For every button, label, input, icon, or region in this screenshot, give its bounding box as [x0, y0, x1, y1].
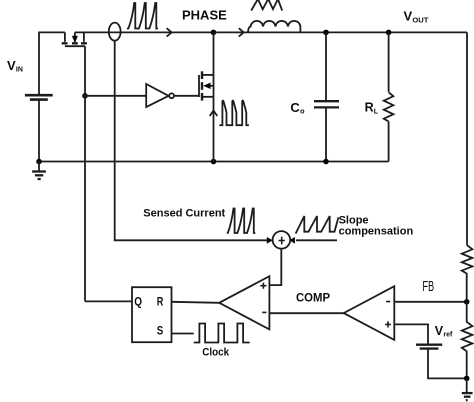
- svg-text:R: R: [365, 101, 374, 115]
- label Clock: [202, 346, 230, 358]
- inductor L1: [248, 21, 300, 33]
- svg-text:V: V: [435, 324, 444, 338]
- op-amp U4 error amplifier: [344, 286, 395, 340]
- arrow into summer from left: [267, 237, 272, 243]
- svg-text:PHASE: PHASE: [182, 8, 227, 23]
- label PHASE: [182, 8, 227, 23]
- arrow on phase wire: [167, 28, 172, 36]
- summing junction S1: [273, 231, 291, 249]
- resistor RL: [384, 32, 394, 161]
- svg-text:compensation: compensation: [339, 226, 414, 238]
- label Co: [290, 100, 305, 116]
- battery VIN: [25, 32, 65, 161]
- wire output rail: [214, 31, 468, 33]
- label VIN: [7, 58, 23, 74]
- arrow into summer from right: [290, 237, 295, 243]
- wire latch S input: [172, 333, 194, 335]
- label Sensed Current: [143, 208, 225, 220]
- svg-text:FB: FB: [422, 278, 434, 295]
- node FB: [464, 299, 470, 305]
- current sensor CT: [109, 23, 121, 41]
- ground symbol right: [462, 378, 473, 400]
- wire sensed-current drop: [115, 41, 269, 241]
- battery Vref: [416, 345, 467, 379]
- op-amp U3 comparator: [219, 276, 269, 329]
- svg-text:Clock: Clock: [202, 346, 230, 358]
- node divider bottom: [464, 376, 470, 382]
- transistor Q2 low-side MOSFET: [199, 71, 214, 100]
- inverter U2: [146, 84, 199, 107]
- node gate junction: [82, 93, 88, 99]
- wire phase node down to Q2 drain: [213, 32, 215, 75]
- wire gate node to inverter input: [85, 95, 146, 97]
- svg-text:Sensed Current: Sensed Current: [143, 208, 225, 220]
- arrow on wire to inductor: [239, 28, 244, 36]
- label RL: [365, 101, 379, 116]
- wire slope compensation input: [296, 239, 337, 241]
- node RL top: [386, 30, 392, 36]
- node Co bottom: [323, 159, 329, 165]
- waveform clock square wave: [194, 324, 250, 343]
- wire comparator output to latch R: [172, 302, 219, 303]
- resistor R1 feedback top: [462, 245, 473, 302]
- node ground left: [36, 159, 42, 165]
- label FB: [422, 278, 434, 295]
- ground symbol left: [32, 162, 46, 180]
- waveform triangle ripple above inductor: [251, 0, 282, 11]
- svg-text:o: o: [300, 107, 305, 116]
- wire Q2 source to ground rail: [213, 75, 215, 162]
- node phase junction: [211, 30, 217, 36]
- wire ground rail: [39, 161, 389, 163]
- svg-text:OUT: OUT: [412, 15, 428, 24]
- node Co top: [323, 30, 329, 36]
- waveform slope compensation sawtooth: [296, 216, 339, 234]
- waveform sawtooth after sensor: [127, 3, 158, 29]
- svg-text:L: L: [374, 109, 379, 116]
- label COMP: [296, 292, 330, 304]
- transistor Q1 high-side MOSFET: [62, 32, 87, 46]
- waveform sawtooth at Q2: [219, 101, 249, 126]
- label Slope compensation: [339, 214, 414, 237]
- svg-text:V: V: [404, 9, 413, 24]
- node Q2 source on ground rail: [211, 159, 217, 165]
- wire phase rail from Q1 to sensor: [75, 31, 214, 33]
- arrow current direction on Q2: [210, 111, 218, 116]
- wire latch Q output: [85, 300, 132, 302]
- wire comparator minus input: [269, 312, 343, 314]
- svg-text:COMP: COMP: [296, 292, 330, 304]
- svg-text:C: C: [290, 100, 300, 115]
- svg-text:S: S: [157, 324, 164, 338]
- wire gate vertical (Q output up to Q1 gate): [84, 46, 86, 301]
- wire error amp minus to FB node: [394, 301, 466, 303]
- svg-text:R: R: [157, 294, 164, 308]
- label Vref: [435, 324, 453, 339]
- label VOUT: [404, 9, 429, 25]
- svg-text:Slope: Slope: [339, 214, 369, 226]
- svg-text:V: V: [7, 58, 16, 73]
- svg-text:ref: ref: [443, 332, 453, 339]
- wire error amp plus to Vref: [394, 324, 428, 344]
- svg-text:Q: Q: [134, 294, 142, 308]
- resistor R2 feedback bottom: [462, 302, 473, 379]
- waveform sensed current sawtooth: [227, 209, 256, 234]
- capacitor Co: [314, 32, 339, 161]
- svg-text:IN: IN: [16, 67, 23, 74]
- wire summer output to comparator plus: [269, 248, 281, 285]
- latch U5 SR flip-flop: [132, 287, 172, 342]
